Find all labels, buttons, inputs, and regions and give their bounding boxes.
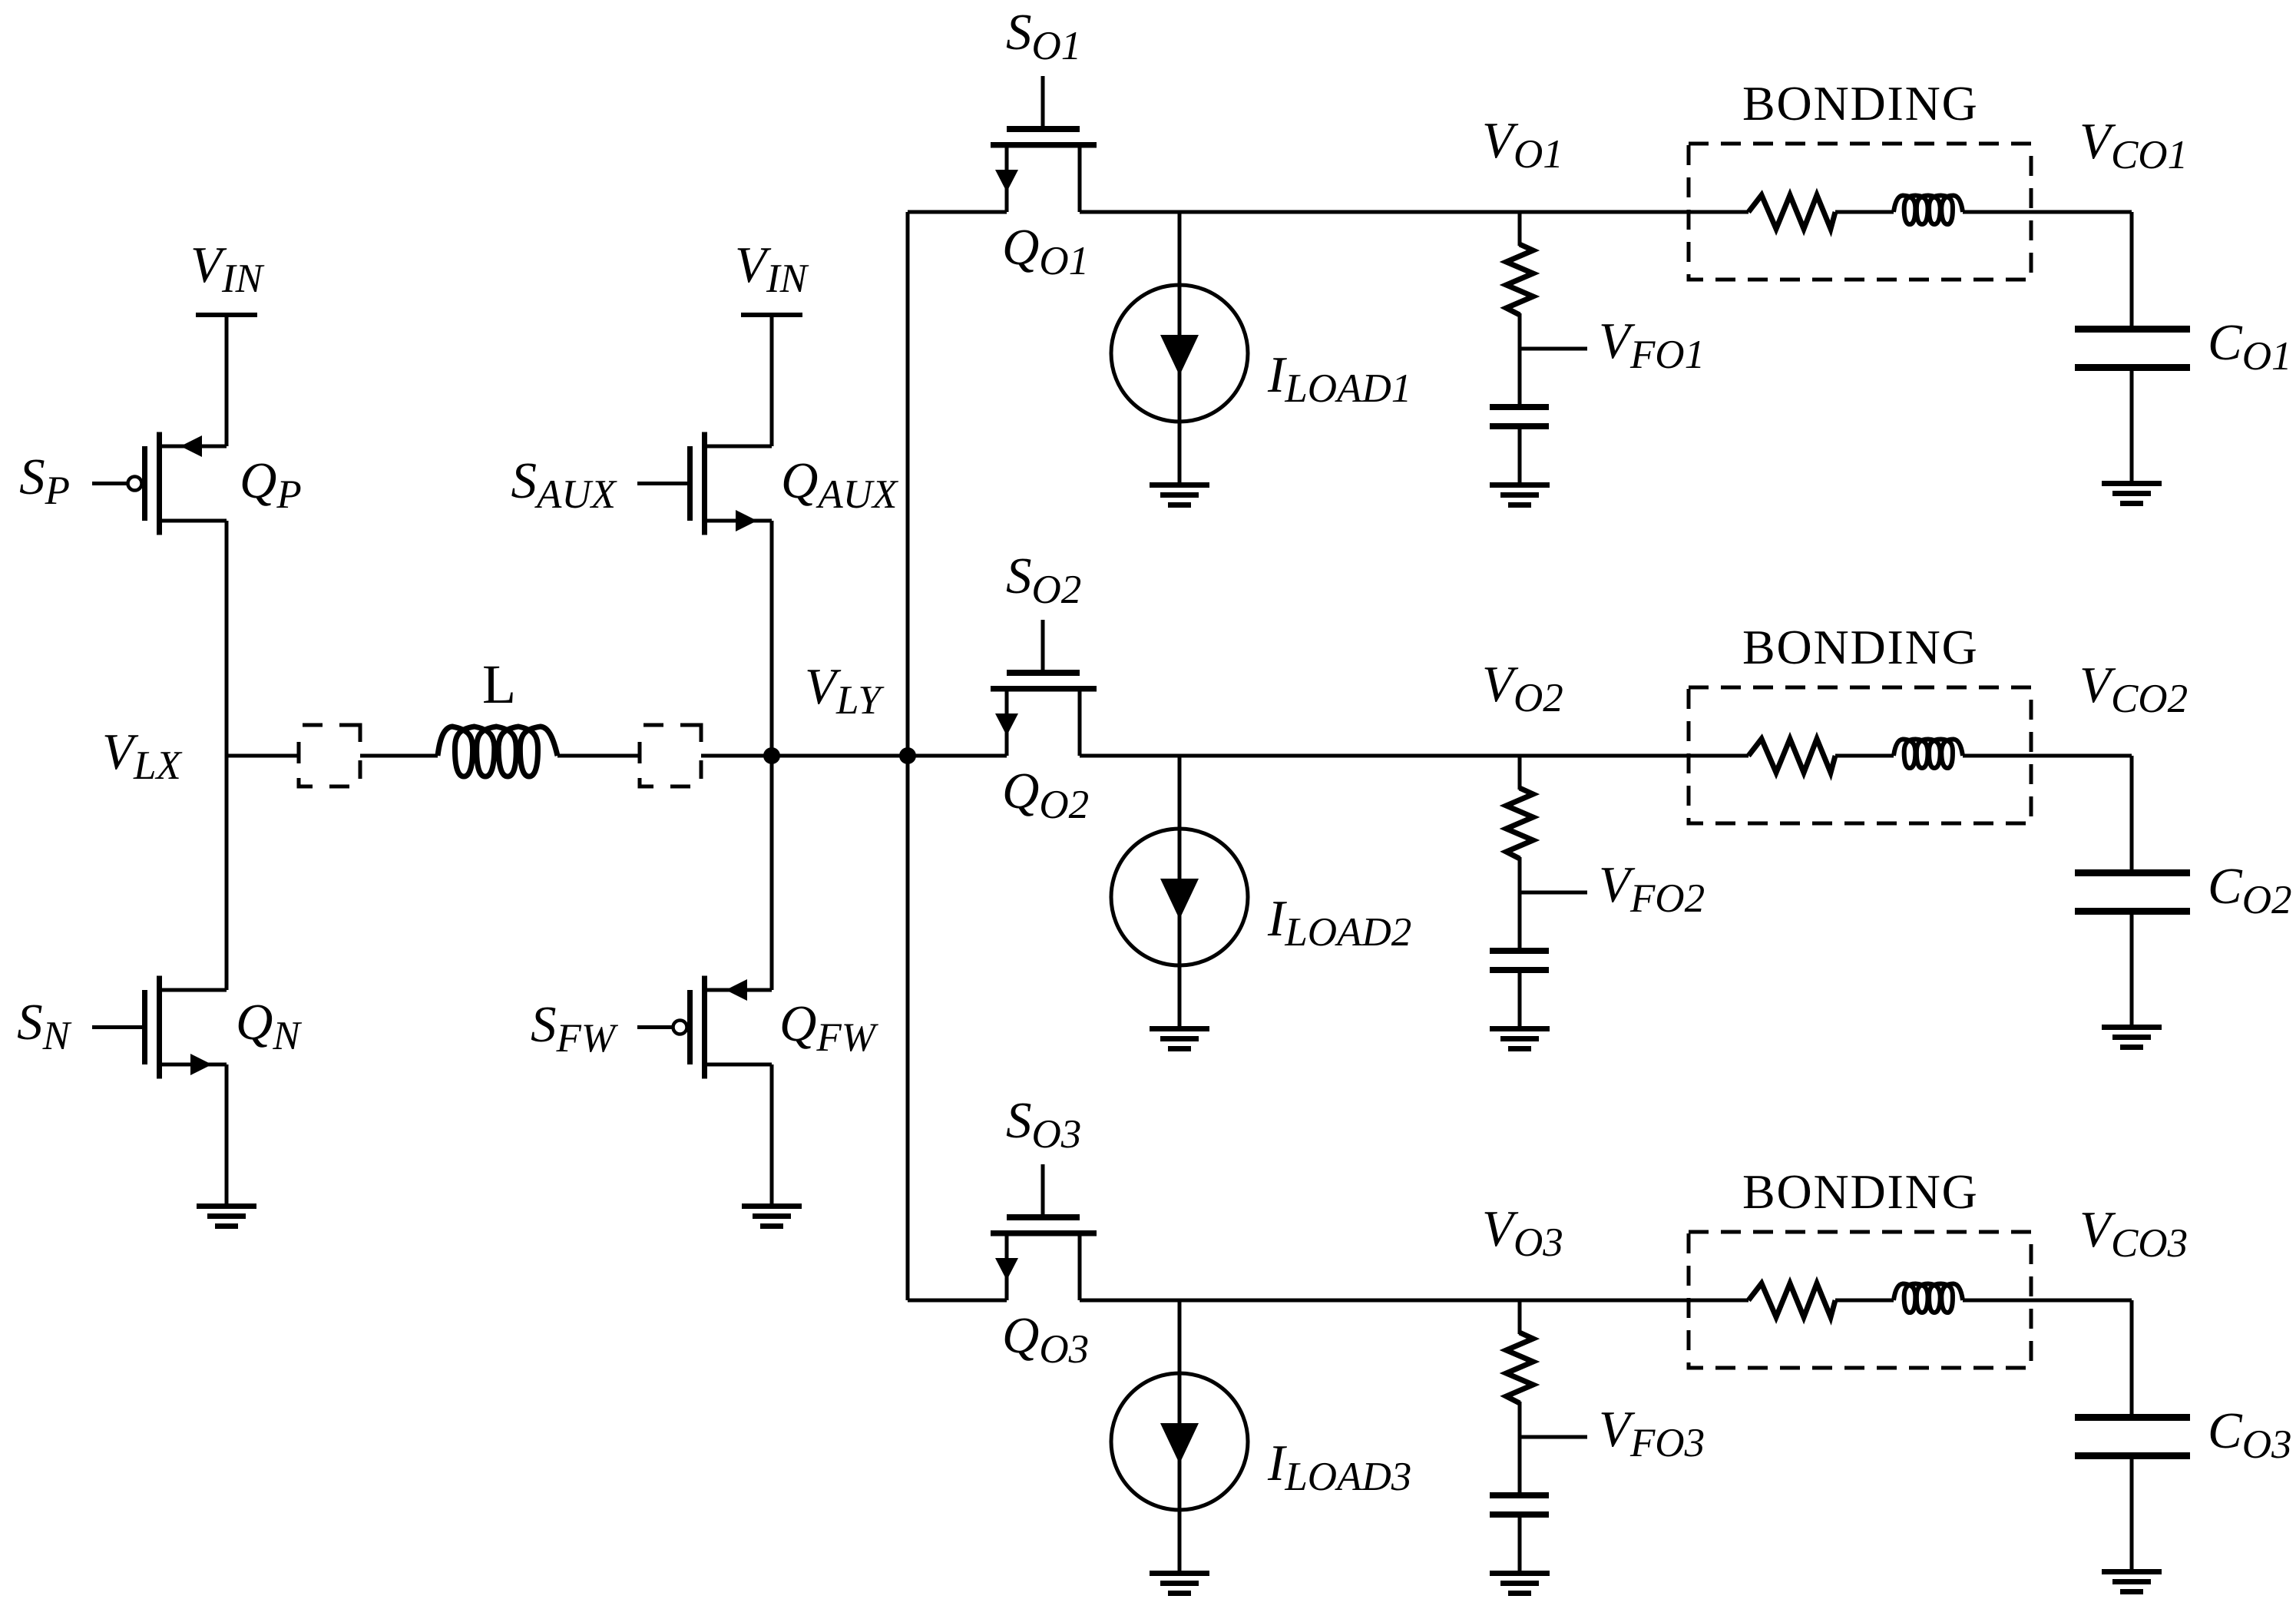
junction dot VLY — [763, 747, 780, 764]
transistor QFW — [673, 976, 773, 1079]
wire QAUX drain to VLY / QFW — [770, 521, 774, 990]
bonding wire inductor (branch 1) — [1894, 196, 1963, 225]
wire VCO2 to CO2 — [2130, 756, 2134, 869]
bonding wire resistor (branch 1) — [1748, 195, 1835, 229]
wire resistor to capacitor — [1518, 857, 1522, 949]
bonding pad (dashed box, right of L) — [640, 725, 701, 786]
node VLX junction — [225, 754, 229, 758]
capacitor CO3 — [2075, 1414, 2190, 1421]
feedback resistor (branch 1) — [1507, 244, 1533, 315]
feedback tap wire VFO2 — [1520, 891, 1587, 895]
wire VLX to QN drain — [225, 756, 229, 990]
wire SO3 to QO3 gate — [1041, 1164, 1045, 1219]
wire bus to QO3 — [908, 1299, 1007, 1303]
pad terminal tick (right pad) — [638, 742, 642, 763]
wire CO3 to ground — [2130, 1459, 2134, 1569]
inductor L — [438, 727, 557, 776]
wire CO2 to ground — [2130, 915, 2134, 1025]
BONDING dashed box (branch 1) — [1689, 144, 2031, 280]
feedback tap wire VFO1 — [1520, 347, 1587, 351]
wire rail to feedback resistor — [1518, 212, 1522, 246]
wire pad to VLY — [701, 754, 1007, 758]
wire bonding inductor to VCO2 — [1963, 754, 2132, 758]
wire SAUX to QAUX gate — [637, 482, 689, 485]
feedback tap wire VFO3 — [1520, 1435, 1587, 1439]
bonding wire inductor (branch 3) — [1894, 1284, 1963, 1313]
transistor QP (PMOS) — [128, 432, 227, 535]
ground (ILOAD1) — [1150, 482, 1209, 508]
bonding wire resistor (branch 3) — [1748, 1283, 1835, 1317]
ground (VFO3 cap) — [1490, 1571, 1550, 1596]
wire VIN to QP source — [225, 315, 229, 446]
capacitor CO2 — [2075, 869, 2190, 876]
transistor QAUX — [687, 432, 772, 535]
distribution bus vertical wire — [906, 212, 910, 1300]
wire capacitor to ground — [1518, 429, 1522, 482]
power rail VIN (middle) — [741, 313, 802, 317]
capacitor CO1 — [2075, 326, 2190, 333]
current source ILOAD1 — [1111, 285, 1248, 422]
wire VLX to pad — [227, 754, 299, 758]
wire SO2 to QO2 gate — [1041, 620, 1045, 674]
wire SO1 to QO1 gate — [1041, 76, 1045, 131]
bonding wire inductor (branch 2) — [1894, 740, 1963, 769]
ground (QN) — [197, 1203, 256, 1229]
wire rail to ILOAD1 — [1178, 212, 1182, 482]
wire capacitor to ground — [1518, 1518, 1522, 1571]
transistor QO2 — [991, 670, 1097, 756]
ground (CO2) — [2102, 1025, 2162, 1050]
BONDING dashed box (branch 3) — [1689, 1232, 2031, 1368]
wire resistor to capacitor — [1518, 1402, 1522, 1494]
transistor QN (NMOS) — [142, 976, 227, 1079]
svg-text:BONDING: BONDING — [1742, 76, 1979, 131]
pad terminal tick (left pad) — [297, 742, 301, 763]
wire bonding resistor to inductor — [1835, 210, 1894, 214]
wire SN to QN gate — [92, 1025, 142, 1029]
current source ILOAD2 — [1111, 829, 1248, 965]
svg-text:BONDING: BONDING — [1742, 1164, 1979, 1219]
svg-text:BONDING: BONDING — [1742, 620, 1979, 674]
wire pad to inductor L — [360, 754, 438, 758]
feedback capacitor (branch 3) — [1490, 1492, 1549, 1498]
ground (ILOAD2) — [1150, 1026, 1209, 1051]
wire QO1 to VO1 rail — [1080, 210, 1748, 214]
junction dot bus/VLY rail — [899, 747, 916, 764]
wire SP to QP gate — [92, 482, 128, 485]
wire VCO1 to CO1 — [2130, 212, 2134, 326]
wire rail to ILOAD3 — [1178, 1300, 1182, 1571]
wire resistor to capacitor — [1518, 313, 1522, 406]
ground (VFO1 cap) — [1490, 482, 1550, 508]
ground (CO1) — [2102, 481, 2162, 506]
transistor QO3 — [991, 1214, 1097, 1300]
wire QO2 to VO2 rail — [1080, 754, 1748, 758]
wire rail to feedback resistor — [1518, 1300, 1522, 1334]
ground (ILOAD3) — [1150, 1571, 1209, 1596]
transistor QO1 — [991, 126, 1097, 212]
ground (CO3) — [2102, 1569, 2162, 1594]
wire QP drain to VLX — [225, 521, 229, 756]
feedback capacitor (branch 1) — [1490, 404, 1549, 410]
wire VCO3 to CO3 — [2130, 1300, 2134, 1414]
feedback capacitor (branch 2) — [1490, 948, 1549, 954]
feedback resistor (branch 2) — [1507, 788, 1533, 859]
feedback resistor (branch 3) — [1507, 1333, 1533, 1403]
wire bus to QO1 — [908, 210, 1007, 214]
wire QFW source to ground — [770, 1064, 774, 1203]
wire QN source to ground — [225, 1064, 229, 1203]
bonding pad (dashed box, left of L) — [299, 725, 360, 786]
ground (QFW) — [742, 1203, 802, 1229]
wire inductor L to pad — [557, 754, 640, 758]
wire QO3 to VO3 rail — [1080, 1299, 1748, 1303]
current source ILOAD3 — [1111, 1373, 1248, 1510]
power rail VIN (left) — [196, 313, 257, 317]
wire bonding resistor to inductor — [1835, 1299, 1894, 1303]
ground (VFO2 cap) — [1490, 1026, 1550, 1051]
wire capacitor to ground — [1518, 973, 1522, 1026]
bonding wire resistor (branch 2) — [1748, 739, 1835, 773]
wire bonding resistor to inductor — [1835, 754, 1894, 758]
wire SFW to QFW gate — [637, 1025, 673, 1029]
wire CO1 to ground — [2130, 371, 2134, 481]
wire bonding inductor to VCO3 — [1963, 1299, 2132, 1303]
wire bonding inductor to VCO1 — [1963, 210, 2132, 214]
BONDING dashed box (branch 2) — [1689, 687, 2031, 823]
wire rail to feedback resistor — [1518, 756, 1522, 790]
wire rail to ILOAD2 — [1178, 756, 1182, 1026]
svg-text:L: L — [482, 654, 516, 715]
wire VIN to QAUX source — [770, 315, 774, 446]
